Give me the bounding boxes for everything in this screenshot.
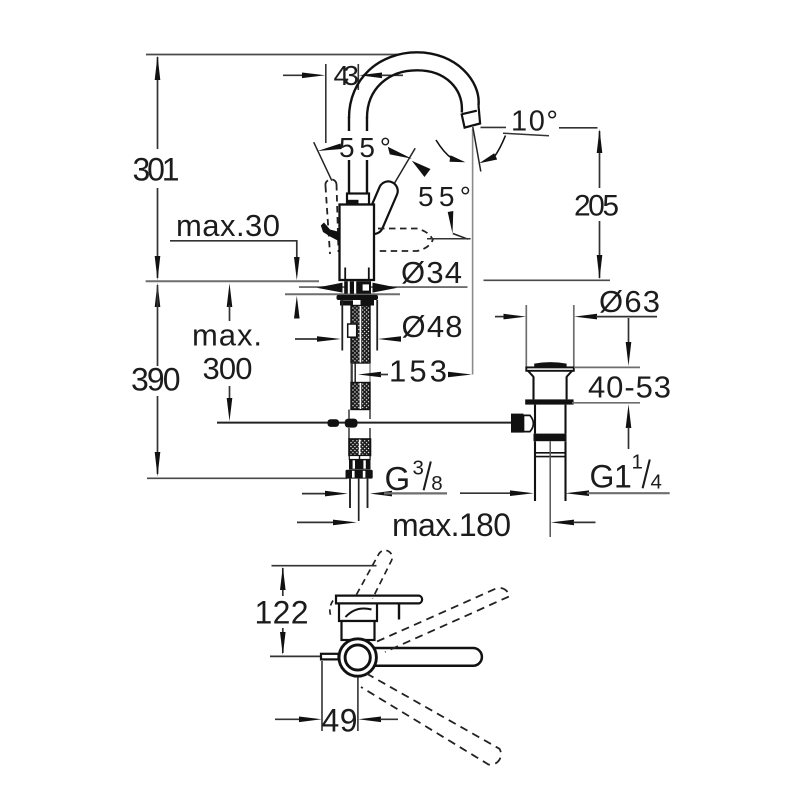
dim 49 line and arrows (275, 718, 300, 720)
svg-text:max.30: max.30 (176, 208, 280, 243)
svg-text:55°: 55° (418, 181, 471, 212)
svg-text:4: 4 (651, 471, 662, 494)
label 55deg-1 white mask (337, 131, 395, 160)
svg-text:153: 153 (389, 353, 447, 388)
drain body walls (534, 405, 536, 434)
plan view 122 top reference line (272, 565, 377, 567)
dim 40-53 bottom reference line (572, 402, 640, 404)
pop-up rod (217, 422, 511, 424)
dim max180 left arrow (297, 521, 334, 523)
max.300 bottom arrow (229, 386, 231, 400)
handle dashed horizontal capsule (378, 229, 433, 252)
dim 49 right extension (357, 678, 359, 732)
svg-text:Ø34: Ø34 (401, 255, 462, 290)
svg-text:G: G (385, 460, 411, 497)
10deg angle arc right with arrow (495, 136, 506, 157)
dim G1 1/4 leader (460, 492, 511, 494)
svg-text:1: 1 (632, 451, 643, 474)
dim max180 right arrow (551, 520, 574, 526)
G3/8 tube (349, 479, 351, 508)
dim 122 vertical (282, 568, 284, 596)
svg-text:55°: 55° (339, 132, 391, 163)
shank gap rod lines (351, 363, 353, 383)
svg-text:40-53: 40-53 (588, 370, 671, 405)
label 10deg reference line segments (481, 126, 507, 128)
dim 43 line with outside arrows (283, 74, 303, 76)
10deg angle arc left with arrow (436, 140, 452, 159)
dim G3/8 leader (302, 493, 326, 495)
plan dome arc (346, 608, 372, 617)
plan body lower rect (342, 621, 375, 640)
hose dark section (349, 460, 371, 470)
handle solid up capsule (361, 178, 400, 236)
drain neck walls (532, 377, 534, 400)
faucet body (340, 205, 375, 281)
svg-text:Ø48: Ø48 (402, 309, 463, 344)
drain flange (525, 399, 573, 404)
plan dashed lever up-right capsule (357, 550, 393, 598)
dim 205 bottom reference line (484, 279, 611, 281)
rod clamp block (511, 414, 524, 433)
max.30 arrow down to counter top (294, 257, 300, 280)
svg-text:1: 1 (614, 459, 632, 495)
tailpipe joint rings (536, 452, 565, 454)
plan spout capsule (374, 648, 482, 666)
rod ball joints (328, 419, 340, 427)
dim 205 arrow up (597, 129, 603, 153)
outlet vertical extension line (472, 129, 474, 375)
flange right wing (373, 283, 398, 293)
label 55deg-1 left arrow (318, 144, 342, 152)
dim dia63 line and arrows (495, 316, 505, 318)
plan spout back tab (321, 654, 339, 660)
mounting nut (337, 295, 379, 300)
lever solid left hook (321, 223, 340, 242)
braided hose section (349, 439, 371, 456)
svg-text:390: 390 (131, 362, 181, 398)
shank outer tube lines (341, 300, 343, 351)
svg-text:3: 3 (413, 457, 424, 480)
spout riser left wall (348, 117, 350, 194)
hose white band (349, 456, 370, 460)
shank top blocks (340, 300, 353, 305)
label 55deg-1 right arrow pair and crossing line (393, 148, 416, 186)
dim 301 arrow down (155, 256, 161, 280)
plan lever bar (336, 596, 422, 604)
dim 43 right extension line (357, 64, 359, 90)
threaded shank lower section (351, 383, 370, 410)
dia63 left extension line (525, 305, 527, 368)
dim 301 arrow up (155, 56, 161, 81)
dia63 right extension line (573, 305, 575, 368)
plan dashed spout up-right (377, 588, 510, 652)
drain cap (534, 362, 566, 367)
spout outlet nozzle (462, 106, 481, 128)
counter lower line (285, 293, 400, 295)
plan mounting circle inner (345, 645, 370, 670)
plan view 122 bottom reference line (270, 655, 326, 657)
svg-text:301: 301 (133, 152, 180, 188)
lever tilted axis line (314, 142, 332, 180)
handle dashed up-left capsule (325, 179, 338, 254)
max.30 leader underline and drop (170, 241, 297, 258)
dim 40-53 top reference line (574, 366, 640, 368)
max.30 arrow up to counter bottom (294, 296, 300, 319)
svg-text:43: 43 (334, 60, 360, 91)
hose neck lines above rod (348, 410, 350, 420)
drain rim flare (528, 371, 572, 377)
shank pull-rod window (348, 324, 357, 337)
tailpipe walls (534, 441, 536, 501)
dim 49 left extension (321, 661, 323, 731)
top reference line (spout top level) (146, 54, 399, 56)
label 55deg-2 down arrow (448, 211, 454, 234)
handle leader line (427, 238, 471, 240)
plan lever stem (398, 604, 400, 620)
svg-text:300: 300 (203, 351, 253, 386)
svg-text:Ø63: Ø63 (599, 284, 660, 319)
faucet collar (347, 194, 369, 205)
svg-text:10°: 10° (511, 106, 558, 138)
plan body upper rect (339, 596, 377, 621)
outlet 10deg stream line (473, 127, 481, 172)
counter upper line (146, 280, 319, 282)
drain bottom ring (534, 434, 567, 442)
svg-text:max.: max. (192, 318, 262, 353)
dim 390 arrows (155, 283, 161, 307)
G3/8 connector nut (346, 470, 373, 479)
svg-text:205: 205 (574, 190, 619, 223)
collar black tab (348, 200, 359, 204)
spout outer arc (349, 52, 479, 118)
dim 153 left arrow at axis (358, 372, 381, 378)
max.300 top arrow (227, 283, 233, 307)
svg-text:max.180: max.180 (392, 507, 511, 543)
plan dashed spout down-right (361, 674, 501, 765)
svg-text:8: 8 (431, 472, 442, 495)
dim 153 right arrow at outlet axis (450, 374, 455, 376)
svg-text:122: 122 (255, 595, 309, 631)
spout inner arc (367, 70, 462, 118)
dim 43 left extension line (325, 64, 327, 143)
flange center block (344, 281, 371, 294)
dim 390 bottom reference line (147, 477, 347, 479)
rod clevis (524, 415, 534, 431)
dim 40-53 vertical with arrows (628, 318, 630, 344)
threaded shank upper section (351, 306, 370, 364)
drain rim (526, 367, 574, 370)
flange left wing (317, 283, 343, 293)
tailpipe centerline (549, 441, 551, 537)
dim 301 vertical line (157, 57, 159, 278)
dim 205 arrow down (597, 255, 603, 280)
spout riser right wall (366, 117, 368, 194)
dim 205 vertical line (599, 131, 601, 188)
svg-text:G: G (590, 459, 615, 495)
plan mounting circle outer (339, 639, 376, 676)
dia34 leader line (299, 286, 468, 288)
plan dashed lever swing arc (330, 601, 333, 618)
dim dia48 line and arrows (295, 338, 318, 340)
svg-text:49: 49 (322, 703, 358, 739)
